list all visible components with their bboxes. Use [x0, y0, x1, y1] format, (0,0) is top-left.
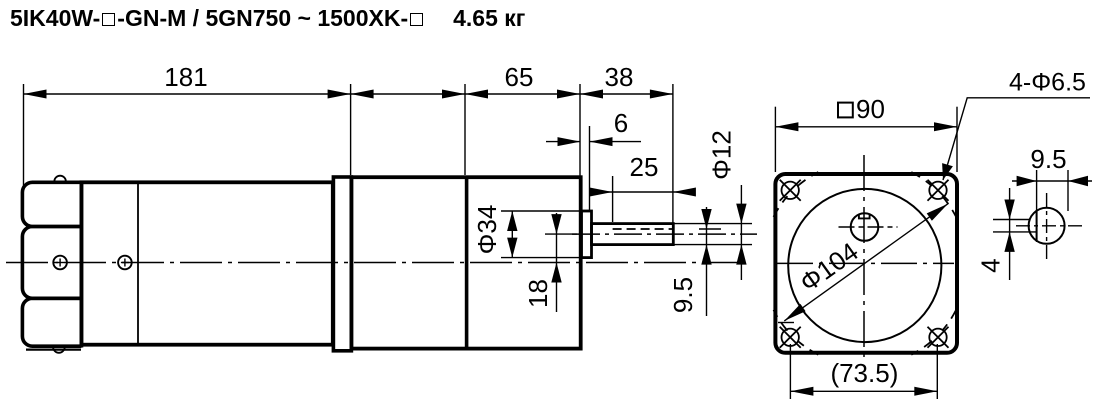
leader arrow: [942, 163, 953, 180]
svg-text:Φ34: Φ34: [472, 205, 502, 255]
left bolt head: [53, 256, 67, 270]
svg-text:(73.5): (73.5): [830, 358, 898, 388]
dim dia104 tick: [778, 322, 794, 324]
dim dia12 line: [740, 185, 742, 280]
dim 18 tick: [545, 233, 577, 235]
dim 25 ext: [612, 176, 614, 222]
motor rear cover (three lobes): [22, 182, 81, 226]
motor centerline: [6, 262, 745, 264]
svg-text:6: 6: [614, 108, 628, 138]
dim 73.5 exts: [789, 344, 791, 399]
dim dia34 line: [511, 211, 513, 258]
dim 6 arrows: [558, 137, 581, 146]
svg-text:9.5: 9.5: [1030, 144, 1066, 174]
leader 4-dia6.5: [943, 98, 1090, 180]
dim 9.5 arrows: [701, 209, 711, 229]
dim 18 arrows: [551, 214, 561, 234]
ext line at 65 start: [464, 84, 466, 175]
dim 6 tails: [546, 141, 581, 143]
detail dim 9.5 exts: [1036, 170, 1038, 242]
gearbox housing: [351, 177, 580, 348]
dim 18 line: [556, 213, 558, 312]
dim dia12 tick: [674, 223, 753, 225]
svg-text:4: 4: [976, 258, 1006, 272]
svg-text:181: 181: [164, 62, 207, 92]
dim 73.5 line: [790, 390, 937, 392]
corner mounting holes 4x dia6.5: [782, 182, 799, 199]
motor body internal line: [137, 182, 139, 344]
dim sq90 line: [775, 126, 957, 128]
dim sq90 arrows: [775, 122, 798, 131]
front vertical centerline: [863, 155, 865, 360]
svg-text:90: 90: [856, 94, 885, 124]
svg-text:4-Φ6.5: 4-Φ6.5: [1009, 69, 1086, 97]
front shaft hole: [851, 213, 879, 241]
dim dia34 ticks: [501, 210, 582, 212]
keyway hidden line: [613, 228, 673, 230]
detail shaft circle: [1029, 208, 1065, 244]
dim dia34 arrows: [507, 211, 517, 231]
bottom screw bump: [53, 347, 65, 353]
dim 9.5 ticks: [699, 228, 721, 230]
output shaft: [592, 224, 674, 245]
detail keyway flat: [1036, 211, 1038, 241]
detail dim 4 arrows: [1004, 200, 1014, 220]
detail dim 9.5 arrows: [1017, 176, 1037, 186]
svg-text:Φ12: Φ12: [707, 130, 737, 180]
title: [10, 5, 525, 32]
svg-text:65: 65: [505, 62, 534, 92]
dim 25 line: [590, 191, 692, 193]
ext line at 38 start: [579, 84, 581, 176]
cover bottom foot line: [26, 349, 81, 351]
svg-text:18: 18: [523, 279, 553, 308]
front horizontal centerline: [777, 262, 954, 264]
dim dia104 arrows: [784, 304, 805, 321]
rear cover right edge: [80, 181, 84, 348]
svg-text:25: 25: [630, 152, 659, 182]
detail dim 4 line: [1009, 188, 1011, 280]
dim sq90 exts: [774, 107, 776, 172]
detail dim 4 ticks: [993, 219, 1029, 221]
svg-text:9.5: 9.5: [668, 277, 698, 313]
dim dia104 line: [784, 204, 948, 321]
ext line left end: [23, 84, 25, 187]
motor body: [81, 182, 332, 344]
gearbox circle: [788, 189, 941, 342]
dim 73.5 arrows: [790, 387, 813, 396]
detail crosshair v: [1046, 193, 1048, 262]
shaft boss: [582, 211, 592, 258]
top screw bump: [54, 176, 66, 182]
dashed corner arcs dia104: [911, 172, 932, 186]
gearbox division line: [465, 177, 469, 348]
dim 9.5 line: [706, 207, 708, 316]
dim dia12 arrows: [736, 204, 746, 224]
detail dim 9.5 line: [1012, 180, 1092, 182]
detail crosshair h: [1016, 225, 1082, 227]
ext line at 181: [350, 84, 352, 175]
dim 25 arrows: [590, 188, 613, 197]
arrows dim chain: [24, 90, 47, 99]
svg-text:38: 38: [605, 62, 634, 92]
dim chain line: [24, 93, 673, 95]
label sq90: [838, 103, 853, 118]
motor front flange: [333, 177, 351, 351]
front hole keyway notch: [859, 214, 870, 218]
right bolt head: [118, 256, 132, 270]
ext line shaft end: [672, 84, 674, 223]
flange square: [775, 174, 957, 353]
front shaft hole crosshair: [839, 226, 898, 228]
shaft centerline: [572, 233, 757, 235]
dim 6 ext: [589, 126, 591, 211]
